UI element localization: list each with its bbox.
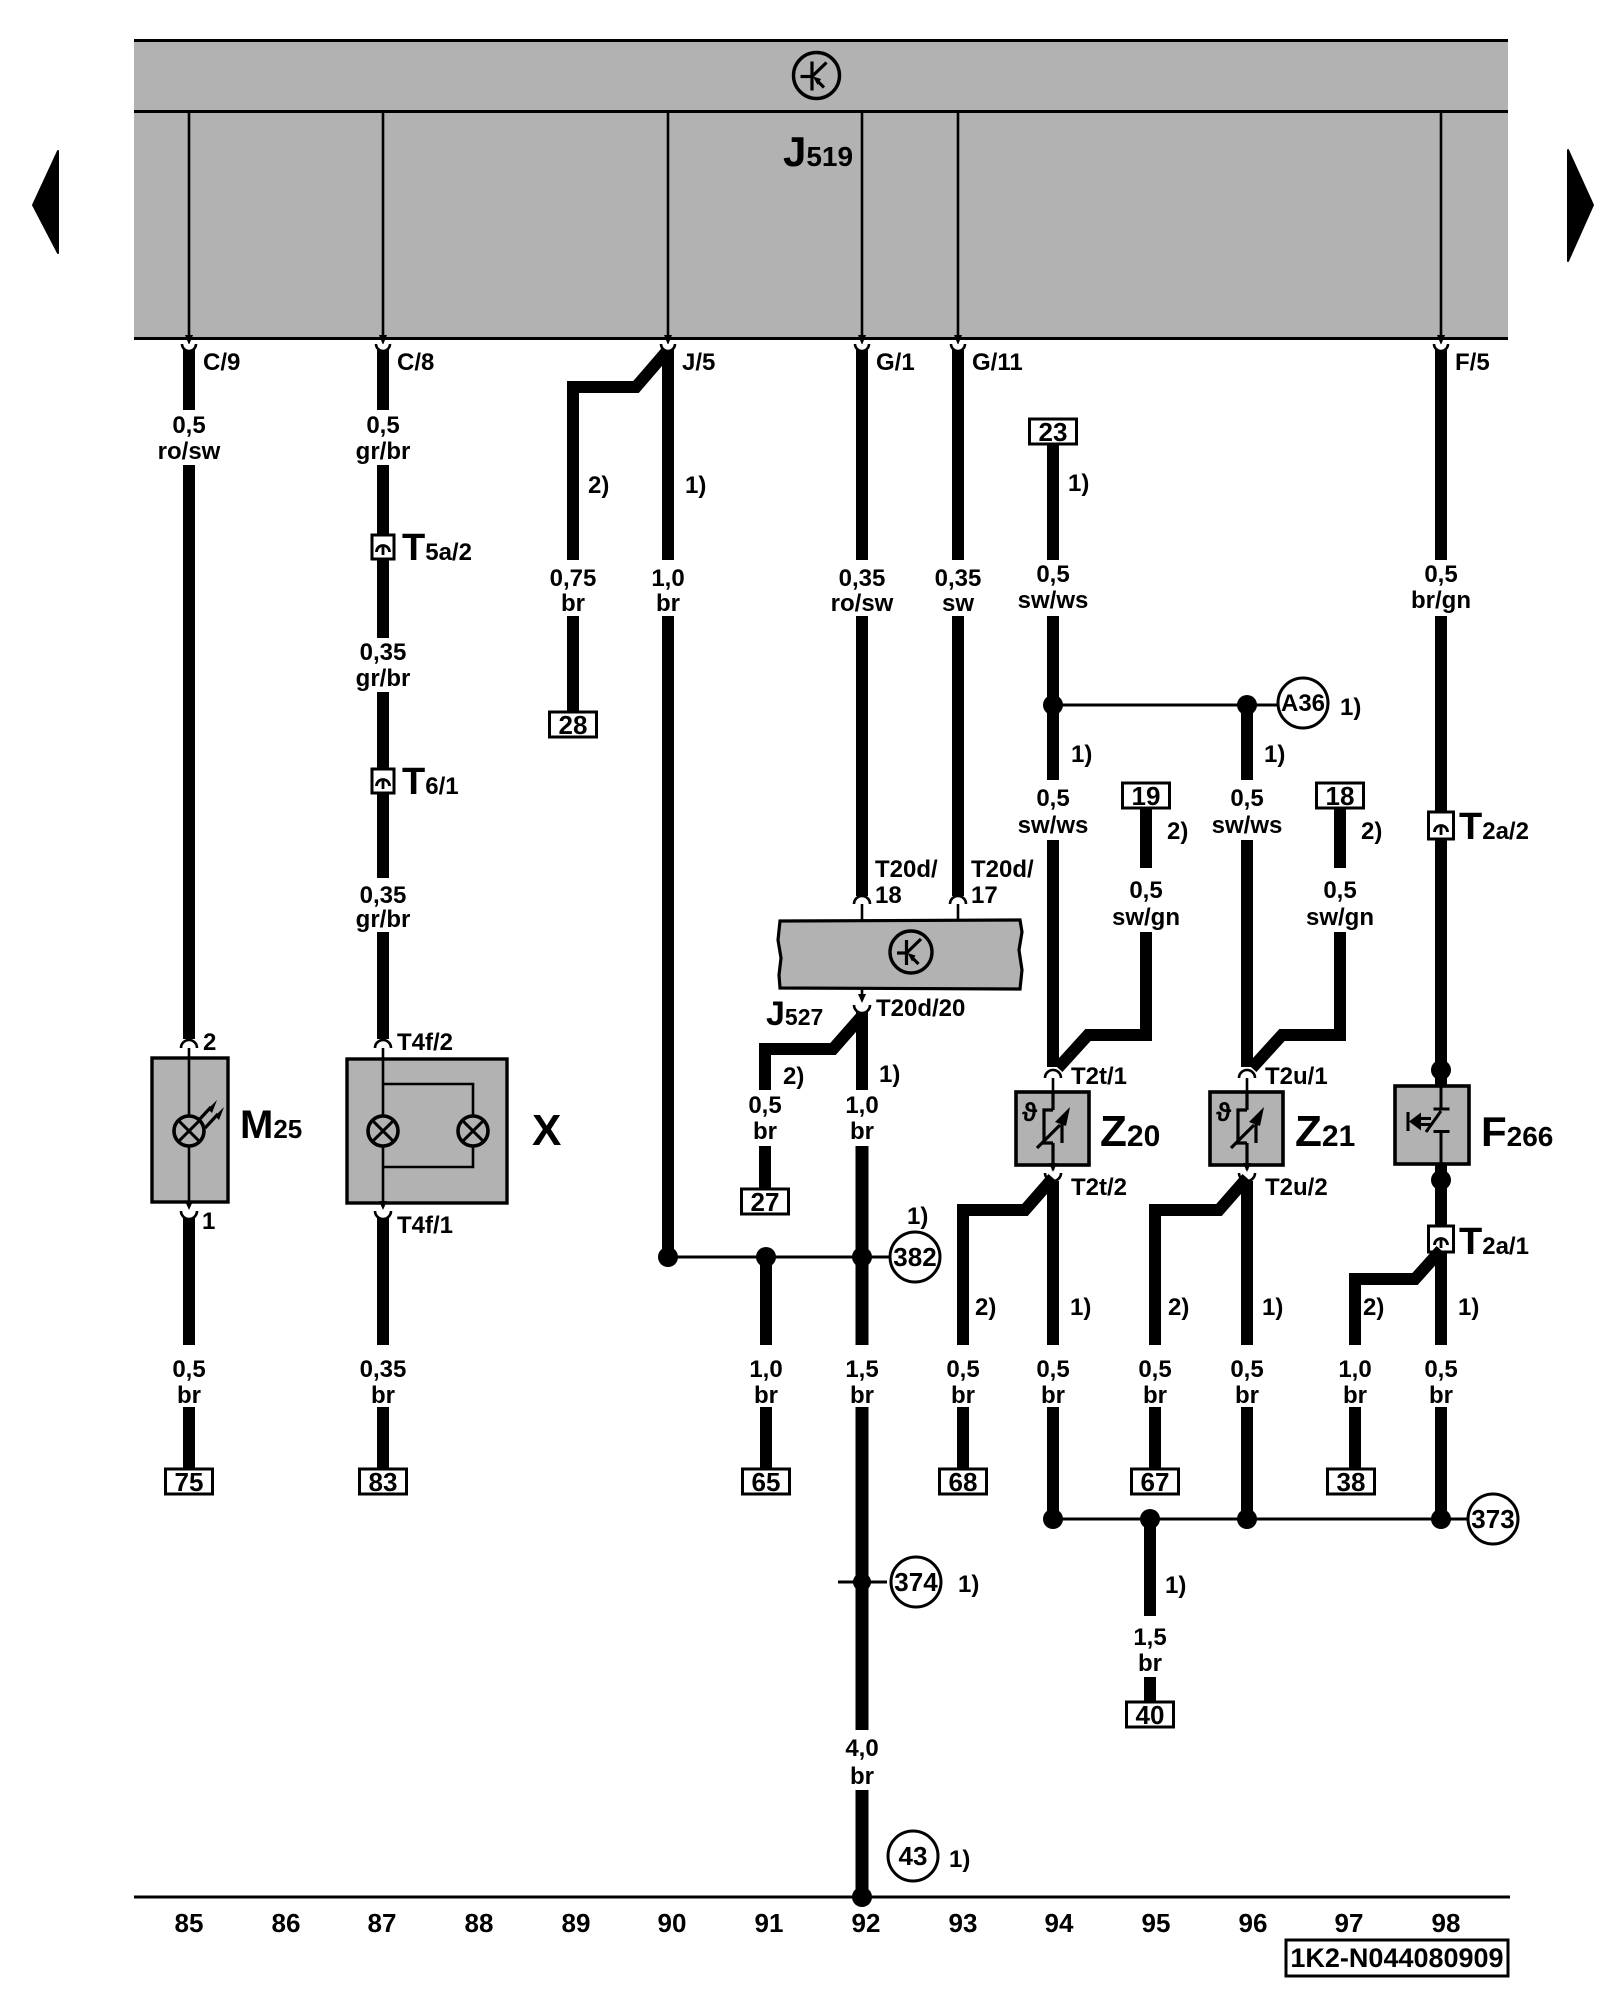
Z20 pin T2t/1 connector [1045,1070,1061,1078]
svg-text:T2t/1: T2t/1 [1071,1063,1127,1090]
wire main to ground rail [856,1790,869,1897]
svg-text:0,35: 0,35 [360,882,407,909]
wire to terminal 67 [1149,1407,1161,1469]
X pin T4f/1 connector [379,1201,387,1210]
svg-text:br: br [1041,1382,1065,1409]
svg-text:1): 1) [1068,470,1089,497]
node 373 line [1053,1518,1467,1521]
svg-text:br: br [1143,1382,1167,1409]
svg-text:1): 1) [949,1846,970,1873]
svg-text:374: 374 [894,1567,938,1597]
svg-text:br: br [371,1382,395,1409]
wire T2t/2 to node 373 upper [1047,1181,1059,1345]
terminal 68 [940,1469,987,1494]
svg-text:68: 68 [949,1467,978,1497]
J519 socket C/9 [182,344,196,351]
wire T6/1 down [377,793,389,878]
lamp unit X body [347,1059,507,1203]
wire 23 to node A36 [1047,616,1059,705]
svg-text:ro/sw: ro/sw [158,438,221,465]
svg-text:2): 2) [1168,1294,1189,1321]
junction dot A36 left [1043,695,1063,715]
svg-text:18: 18 [1326,781,1355,811]
svg-text:2: 2 [203,1029,216,1056]
svg-text:1K2-N044080909: 1K2-N044080909 [1290,1943,1503,1973]
junction dot 373 b [1237,1509,1257,1529]
svg-text:0,5: 0,5 [1036,785,1069,812]
M25 lamp symbol [174,1116,204,1146]
svg-text:0,35: 0,35 [360,639,407,666]
wire C/9 to M25 [183,465,195,1039]
wire to terminal 68 [957,1407,969,1469]
junction dot A36 right [1237,695,1257,715]
J519 pin line C/9 [188,113,191,336]
Z21 pin T2u/2 [1246,1165,1249,1170]
svg-text:br: br [561,590,585,617]
connector T2a/2 [1429,812,1454,839]
terminal 38 [1328,1469,1375,1494]
X pin T4f/2 connector [375,1040,391,1048]
svg-text:2): 2) [1167,818,1188,845]
svg-text:2): 2) [588,472,609,499]
svg-text:4,0: 4,0 [845,1735,878,1762]
svg-text:88: 88 [465,1908,494,1938]
svg-text:ϑ: ϑ [1022,1097,1038,1127]
wire 373 to 40 upper [1144,1524,1156,1616]
terminal 23 [1030,419,1077,444]
wire sw/ws to T2t/1 lower [1047,840,1059,1067]
svg-text:2): 2) [1363,1294,1384,1321]
svg-text:0,5: 0,5 [172,412,205,439]
svg-text:gr/br: gr/br [356,438,411,465]
terminal 19 [1123,783,1170,808]
svg-text:T20d/20: T20d/20 [876,995,965,1022]
wire T2u/2 to node 373 lower [1241,1407,1253,1514]
wire to terminal 27 [759,1146,771,1189]
ground rail [134,1896,1510,1899]
wire X to terminal 83 lower [377,1407,389,1469]
J519 socket C/8 [376,344,390,351]
svg-text:1,0: 1,0 [651,565,684,592]
node 382 line [668,1256,889,1259]
wire J/5 main 1,0 br upper [662,350,674,560]
F266 internal contact symbol [1408,1086,1450,1164]
wire T2a/1 to node 373 lower [1435,1407,1447,1514]
M25 pin 1 connector [185,1201,193,1210]
node 374 tick [838,1581,887,1584]
switch F266 body [1395,1086,1469,1164]
svg-text:0,75: 0,75 [550,565,597,592]
junction dot J5 at node 382 line [658,1247,678,1267]
J519 socket G/1 [855,344,869,351]
svg-text:17: 17 [971,882,998,909]
svg-text:A36: A36 [1281,690,1325,717]
terminal 75 [166,1469,213,1494]
wire G/1 segment 0,35 ro/sw [856,350,868,560]
svg-text:1): 1) [1264,741,1285,768]
wire to terminal 65 upper [760,1262,772,1345]
svg-text:br: br [951,1382,975,1409]
wire F/5 to T2a/2 [1435,616,1447,812]
wire M25 to terminal 75 lower [183,1407,195,1469]
svg-text:sw/ws: sw/ws [1018,812,1089,839]
svg-text:0,5: 0,5 [172,1356,205,1383]
wire F266 to T2a/1 [1435,1164,1447,1226]
svg-text:93: 93 [949,1908,978,1938]
svg-text:sw/gn: sw/gn [1306,904,1374,931]
svg-text:2): 2) [1361,818,1382,845]
svg-text:T4f/1: T4f/1 [397,1212,453,1239]
svg-text:br: br [850,1382,874,1409]
svg-text:0,35: 0,35 [935,565,982,592]
node 373 circle [1468,1494,1518,1544]
J519 pin line C/8 [382,113,385,336]
svg-text:1): 1) [1070,1294,1091,1321]
svg-text:sw/ws: sw/ws [1018,587,1089,614]
svg-text:gr/br: gr/br [356,906,411,933]
svg-text:gr/br: gr/br [356,665,411,692]
wire T2t/2 branch to 68 [963,1178,1053,1345]
junction dot below F266 [1431,1170,1451,1190]
connector T2a/1 [1429,1226,1454,1252]
wire T2u/2 to node 373 upper [1241,1181,1253,1345]
svg-text:0,5: 0,5 [1323,877,1356,904]
J519 socket G/11 [951,344,965,351]
svg-text:br: br [753,1118,777,1145]
motor M25 body [152,1058,228,1202]
wire T2a/2 to F266 [1435,839,1447,1086]
svg-text:382: 382 [893,1242,936,1272]
diagram ID box [1286,1940,1508,1976]
wire 373 to 40 lower [1144,1677,1156,1702]
wire main 1,0 br below J527 [856,1012,868,1090]
svg-text:br: br [850,1763,874,1790]
wire A36 to T2u/1 upper [1241,705,1253,780]
node A36 line [1053,704,1277,707]
diagnostic K symbol on J519 [794,53,840,99]
svg-text:1,0: 1,0 [749,1356,782,1383]
J519 pin line J/5 [667,113,670,336]
wire 18 upper [1334,808,1346,868]
wire F/5 segment 0,5 br/gn [1435,350,1447,560]
svg-text:373: 373 [1471,1504,1514,1534]
wire T5a/2 down [377,559,389,638]
svg-text:sw: sw [942,590,974,617]
terminal 83 [360,1469,407,1494]
svg-text:90: 90 [658,1908,687,1938]
node A36 circle [1278,678,1328,728]
svg-text:0,5: 0,5 [1036,561,1069,588]
terminal 65 [743,1469,790,1494]
svg-text:0,5: 0,5 [1036,1356,1069,1383]
J527 pin T20d/18 connector [854,896,870,904]
svg-text:0,5: 0,5 [946,1356,979,1383]
svg-text:1): 1) [907,1203,928,1230]
wire branch to terminal 28 [567,616,579,712]
svg-text:T2u/1: T2u/1 [1265,1063,1328,1090]
svg-text:J/5: J/5 [682,349,715,376]
svg-text:T20d/: T20d/ [875,856,938,883]
svg-text:T20d/: T20d/ [971,856,1034,883]
svg-text:91: 91 [755,1908,784,1938]
svg-text:0,35: 0,35 [360,1356,407,1383]
ground rail junction dot [852,1887,872,1907]
junction dot above F266 [1431,1060,1451,1080]
svg-text:0,5: 0,5 [748,1092,781,1119]
wire X to terminal 83 upper [377,1218,389,1345]
J519 socket J/5 [661,344,675,351]
wire sw/ws to T2t/1 upper [1047,705,1059,780]
svg-text:0,5: 0,5 [1230,1356,1263,1383]
svg-text:86: 86 [272,1908,301,1938]
svg-text:br: br [850,1118,874,1145]
wire to lamp X [377,932,389,1039]
page arrow right [1568,150,1593,261]
svg-text:T2t/2: T2t/2 [1071,1174,1127,1201]
svg-text:87: 87 [368,1908,397,1938]
wire 19 upper [1140,808,1152,868]
svg-text:95: 95 [1142,1908,1171,1938]
svg-text:0,5: 0,5 [1424,561,1457,588]
wire T20d/20 branch to 27 [765,1016,862,1090]
svg-text:0,5: 0,5 [366,412,399,439]
svg-text:br: br [1235,1382,1259,1409]
svg-text:23: 23 [1039,417,1068,447]
wire main through node 382 [856,1146,869,1345]
svg-text:43: 43 [899,1841,928,1871]
svg-text:X: X [532,1106,561,1155]
svg-text:T4f/2: T4f/2 [397,1029,453,1056]
wire C/8 segment 0,5 gr/br [377,350,389,410]
svg-text:67: 67 [1141,1467,1170,1497]
svg-text:br: br [177,1382,201,1409]
junction dot 373 d [1140,1509,1160,1529]
wire J/5 branch to 28 [573,351,667,560]
svg-text:28: 28 [559,710,588,740]
svg-text:1): 1) [958,1571,979,1598]
junction dot 373 a [1043,1509,1063,1529]
M25 internal pin line [188,1048,191,1202]
svg-text:0,5: 0,5 [1129,877,1162,904]
wire G/11 segment 0,35 sw [952,350,964,560]
svg-text:2): 2) [975,1294,996,1321]
svg-text:96: 96 [1239,1908,1268,1938]
X lamp 2 [458,1116,488,1146]
wire C/9 upper segment 0,5 ro/sw [183,350,195,410]
svg-text:ro/sw: ro/sw [831,590,894,617]
X lamp 1 [368,1116,398,1146]
terminal 27 [742,1189,789,1214]
svg-text:1,5: 1,5 [845,1356,878,1383]
J519 socket F/5 [1434,344,1448,351]
J519 pin line G/1 [861,113,864,336]
junction dot main at 382 [852,1247,872,1267]
svg-text:19: 19 [1132,781,1161,811]
svg-text:G/11: G/11 [972,349,1023,376]
grid numbers 85-98 [175,1908,1461,1938]
svg-text:1): 1) [1262,1294,1283,1321]
wire M25 to terminal 75 upper [183,1218,195,1345]
wire J/5 main to node 382 [662,616,674,1252]
heater element Z20 [1016,1092,1089,1165]
J527 pin T20d/17 connector [950,896,966,904]
terminal 67 [1132,1469,1179,1494]
node 382 circle [890,1232,940,1282]
control unit J519 body [134,40,1508,340]
connector T6/1 [372,769,394,793]
svg-text:G/1: G/1 [876,349,915,376]
svg-text:1): 1) [1340,694,1361,721]
svg-text:27: 27 [751,1187,780,1217]
control unit J527 body [778,920,1022,989]
connector T5a/2 [372,535,394,559]
svg-text:F/5: F/5 [1455,349,1490,376]
node 374 circle [891,1557,941,1607]
svg-text:18: 18 [875,882,902,909]
svg-text:C/9: C/9 [203,349,240,376]
svg-text:1,0: 1,0 [845,1092,878,1119]
wire 19 to T2t/1 [1058,932,1146,1068]
junction dot 373 c [1431,1509,1451,1529]
J527 pin T20d/20 [861,989,864,1000]
svg-text:1,5: 1,5 [1133,1624,1166,1651]
svg-text:0,35: 0,35 [839,565,886,592]
svg-text:br: br [1343,1382,1367,1409]
wire T2t/2 to node 373 lower [1047,1407,1059,1514]
svg-text:1): 1) [685,472,706,499]
Z20 pin T2t/2 [1052,1165,1055,1170]
svg-text:1): 1) [1458,1294,1479,1321]
svg-text:89: 89 [562,1908,591,1938]
svg-text:br: br [754,1382,778,1409]
svg-text:br: br [1138,1650,1162,1677]
node 43 circle [888,1831,938,1881]
wire to terminal 65 lower [760,1407,772,1469]
svg-text:65: 65 [752,1467,781,1497]
page arrow left [33,151,58,253]
X internal wiring [383,1048,473,1203]
wire G/11 to J527 [952,616,964,896]
wire 18 to T2u/1 [1252,932,1340,1068]
svg-text:75: 75 [175,1467,204,1497]
svg-text:br/gn: br/gn [1411,587,1471,614]
svg-text:br: br [656,590,680,617]
heater element Z21 [1210,1092,1283,1165]
diagnostic K symbol on J527 [890,931,932,973]
svg-text:85: 85 [175,1908,204,1938]
wire 23 down [1047,444,1059,560]
terminal 40 [1127,1702,1174,1727]
svg-text:C/8: C/8 [397,349,434,376]
svg-text:sw/ws: sw/ws [1212,812,1283,839]
svg-text:2): 2) [783,1063,804,1090]
svg-text:T2u/2: T2u/2 [1265,1174,1328,1201]
svg-text:1): 1) [1165,1572,1186,1599]
wire T2a/1 to node 373 upper [1435,1252,1447,1345]
M25 pin 2 connector [181,1040,197,1048]
junction dot 65 wire [756,1247,776,1267]
terminal 28 [550,712,597,737]
svg-text:0,5: 0,5 [1230,785,1263,812]
svg-text:br: br [1429,1382,1453,1409]
svg-text:sw/gn: sw/gn [1112,904,1180,931]
terminal 18 [1317,783,1364,808]
wire T2u/2 branch to 67 [1155,1178,1247,1345]
wire to T6/1 [377,692,389,769]
svg-text:98: 98 [1432,1908,1461,1938]
Z21 pin T2u/1 connector [1239,1070,1255,1078]
svg-text:92: 92 [852,1908,881,1938]
wire C/8 to T5a/2 [377,465,389,535]
svg-text:1: 1 [202,1208,215,1235]
svg-text:1): 1) [879,1061,900,1088]
M25 indicator arrows [198,1100,224,1128]
wire A36 to T2u/1 lower [1241,840,1253,1067]
wire to terminal 38 [1349,1407,1361,1469]
J519 pin line F/5 [1440,113,1443,336]
svg-text:1): 1) [1071,741,1092,768]
svg-text:40: 40 [1136,1700,1165,1730]
svg-text:1,0: 1,0 [1338,1356,1371,1383]
wire G/1 to J527 [856,616,868,896]
svg-text:97: 97 [1335,1908,1364,1938]
svg-text:38: 38 [1337,1467,1366,1497]
svg-text:ϑ: ϑ [1216,1097,1232,1127]
svg-text:94: 94 [1045,1908,1074,1938]
svg-text:83: 83 [369,1467,398,1497]
svg-text:0,5: 0,5 [1138,1356,1171,1383]
svg-text:0,5: 0,5 [1424,1356,1457,1383]
wire T2a/1 branch to 38 [1355,1250,1441,1345]
J519 pin line G/11 [957,113,960,336]
